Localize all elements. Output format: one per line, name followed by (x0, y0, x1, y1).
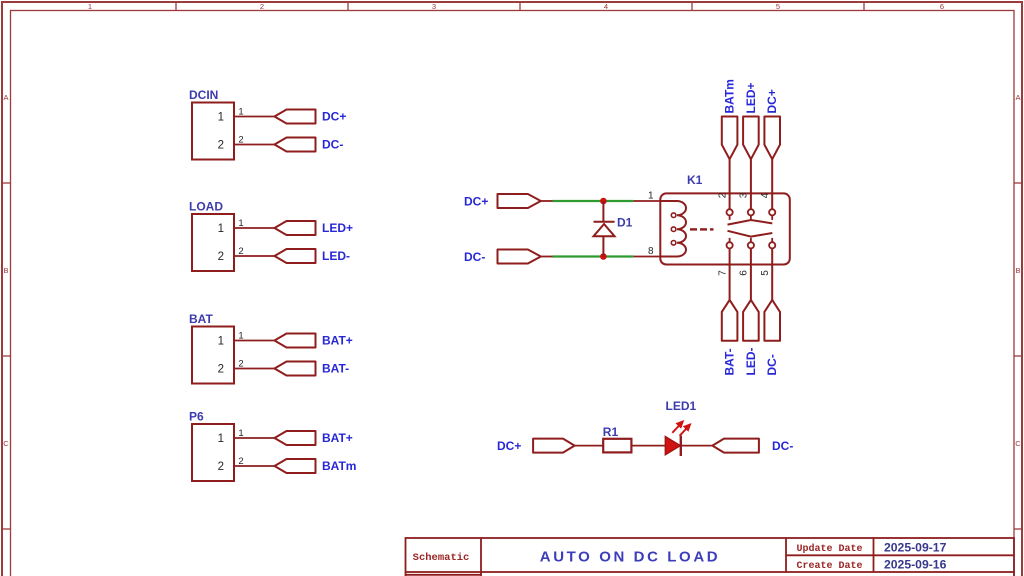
top contact circle pin 2 (727, 209, 733, 215)
svg-text:LED+: LED+ (744, 82, 758, 113)
svg-text:LED-: LED- (322, 249, 350, 263)
connector LOAD (192, 214, 234, 271)
svg-text:D1: D1 (617, 216, 633, 230)
connector DCIN (192, 103, 234, 160)
svg-text:P6: P6 (189, 410, 204, 424)
net port BAT- (275, 362, 316, 376)
bottom contact stub pin 7 (729, 238, 731, 242)
relay armature bottom (switch) (728, 231, 773, 237)
svg-text:LED1: LED1 (666, 399, 697, 413)
svg-text:2: 2 (260, 2, 264, 11)
wire R1 to LED1 (631, 445, 665, 447)
svg-text:AUTO ON DC LOAD: AUTO ON DC LOAD (540, 549, 720, 566)
svg-text:C: C (3, 439, 9, 448)
connector BAT (192, 327, 234, 384)
wire pin1 of P6 (234, 437, 275, 439)
svg-text:BAT+: BAT+ (322, 334, 353, 348)
svg-text:DC+: DC+ (464, 195, 488, 209)
top contact circle pin 3 (748, 209, 754, 215)
net port DC+ (top) (764, 117, 780, 160)
svg-text:3: 3 (739, 192, 750, 198)
bottom contact circle pin 5 (769, 242, 775, 248)
net port DC- (bottom) (764, 300, 780, 341)
svg-text:6: 6 (739, 270, 750, 276)
bottom contact circle pin 6 (748, 242, 754, 248)
wire DC- (green) (553, 255, 634, 257)
svg-text:7: 7 (717, 270, 728, 276)
coil-to-contact dashed link (690, 228, 714, 230)
net port DC+ (LED row, right-pointing) (533, 439, 575, 453)
svg-text:1: 1 (218, 112, 224, 124)
svg-text:LED+: LED+ (322, 221, 353, 235)
coil loop c (671, 241, 676, 246)
LED1 emission arrow a (672, 421, 683, 433)
wire pin2 of DCIN (234, 144, 275, 146)
svg-text:BATm: BATm (322, 459, 356, 473)
svg-text:B: B (1015, 266, 1020, 275)
wire stub DC- port (541, 256, 553, 258)
connector P6 (192, 424, 234, 481)
svg-text:4: 4 (760, 192, 771, 198)
resistor R1 (603, 439, 631, 453)
svg-text:5: 5 (776, 2, 780, 11)
net port LED+ (top) (743, 117, 759, 160)
coil loop b (671, 227, 676, 232)
svg-text:2025-09-17: 2025-09-17 (884, 541, 947, 555)
svg-text:Update Date: Update Date (796, 543, 862, 555)
LED LED1 (665, 436, 681, 456)
svg-text:1: 1 (218, 223, 224, 235)
svg-text:BAT+: BAT+ (322, 431, 353, 445)
wire top pin 3 of K1 (750, 159, 752, 209)
svg-text:DC+: DC+ (497, 439, 521, 453)
wire DC+ to R1 (575, 445, 604, 447)
svg-text:1: 1 (218, 433, 224, 445)
svg-text:2: 2 (218, 364, 224, 376)
wire pin1 of DCIN (234, 116, 275, 118)
svg-text:2025-09-16: 2025-09-16 (884, 557, 947, 571)
bottom contact stub pin 6 (750, 238, 752, 242)
net port DC- (LED row) (712, 439, 759, 453)
wire top pin 2 of K1 (729, 159, 731, 209)
wire pin1 of LOAD (234, 227, 275, 229)
pin 8 wire of K1 (633, 256, 660, 258)
svg-text:5: 5 (760, 270, 771, 276)
svg-text:3: 3 (432, 2, 436, 11)
wire pin1 of BAT (234, 340, 275, 342)
wire LED1 to DC- port (681, 445, 713, 447)
wire stub DC+ port (541, 200, 553, 202)
wire pin2 of P6 (234, 465, 275, 467)
svg-text:1: 1 (218, 336, 224, 348)
svg-text:Schematic: Schematic (413, 552, 470, 564)
svg-text:6: 6 (940, 2, 944, 11)
svg-text:Create Date: Create Date (796, 561, 862, 572)
pin 1 wire of K1 (633, 200, 660, 202)
top contact stub pin 4 (771, 215, 773, 220)
net port DC+ (275, 110, 316, 124)
junction node DC- (600, 253, 607, 260)
svg-text:DC-: DC- (772, 439, 793, 453)
svg-text:DC+: DC+ (322, 110, 346, 124)
diode D1 (594, 201, 615, 257)
wire DC+ (green) (553, 200, 634, 202)
svg-text:BAT: BAT (189, 312, 213, 326)
svg-text:BAT-: BAT- (322, 362, 349, 376)
svg-text:1: 1 (88, 2, 92, 11)
net port BAT- (bottom) (722, 300, 738, 341)
net port BAT+ (275, 431, 316, 445)
net port BAT+ (275, 334, 316, 348)
svg-text:LED-: LED- (744, 348, 758, 376)
top contact circle pin 4 (769, 209, 775, 215)
relay armature top (switch) (728, 220, 773, 225)
coil loop a (671, 213, 676, 218)
wire pin2 of LOAD (234, 255, 275, 257)
bottom contact circle pin 7 (727, 242, 733, 248)
svg-text:2: 2 (218, 461, 224, 473)
net port LED+ (275, 221, 316, 235)
svg-text:DC+: DC+ (765, 89, 779, 113)
net port DC- (275, 138, 316, 152)
net port LED- (275, 249, 316, 263)
svg-text:A: A (1015, 93, 1020, 102)
wire bottom pin 6 of K1 (750, 248, 752, 300)
relay coil (660, 201, 686, 257)
wire top pin 4 of K1 (771, 159, 773, 209)
bottom contact stub pin 5 (771, 238, 773, 242)
svg-text:DC-: DC- (765, 354, 779, 375)
svg-text:4: 4 (604, 2, 608, 11)
net port DC+ (relay) (498, 194, 541, 208)
svg-text:LOAD: LOAD (189, 200, 223, 214)
net port DC- (relay) (498, 250, 541, 264)
svg-text:R1: R1 (603, 425, 619, 439)
net port LED- (bottom) (743, 300, 759, 341)
svg-text:DCIN: DCIN (189, 88, 218, 102)
svg-text:2: 2 (717, 192, 728, 198)
svg-text:8: 8 (648, 246, 654, 257)
LED1 emission arrow b (680, 424, 691, 436)
svg-text:B: B (3, 266, 8, 275)
svg-text:K1: K1 (687, 173, 703, 187)
relay K1 body (660, 193, 790, 264)
svg-text:DC-: DC- (322, 138, 343, 152)
wire bottom pin 7 of K1 (729, 248, 731, 300)
junction node DC+ (600, 198, 607, 205)
svg-text:DC-: DC- (464, 250, 485, 264)
svg-text:A: A (3, 93, 8, 102)
net port BATm (top) (722, 117, 738, 160)
net port BATm (275, 459, 316, 473)
top contact stub pin 3 (750, 215, 752, 220)
wire pin2 of BAT (234, 368, 275, 370)
svg-text:C: C (1015, 439, 1021, 448)
wire bottom pin 5 of K1 (771, 248, 773, 300)
svg-text:BAT-: BAT- (723, 348, 737, 375)
svg-text:1: 1 (648, 191, 654, 202)
svg-text:2: 2 (218, 140, 224, 152)
svg-text:2: 2 (218, 251, 224, 263)
top contact stub pin 2 (729, 215, 731, 220)
svg-text:BATm: BATm (723, 79, 737, 113)
